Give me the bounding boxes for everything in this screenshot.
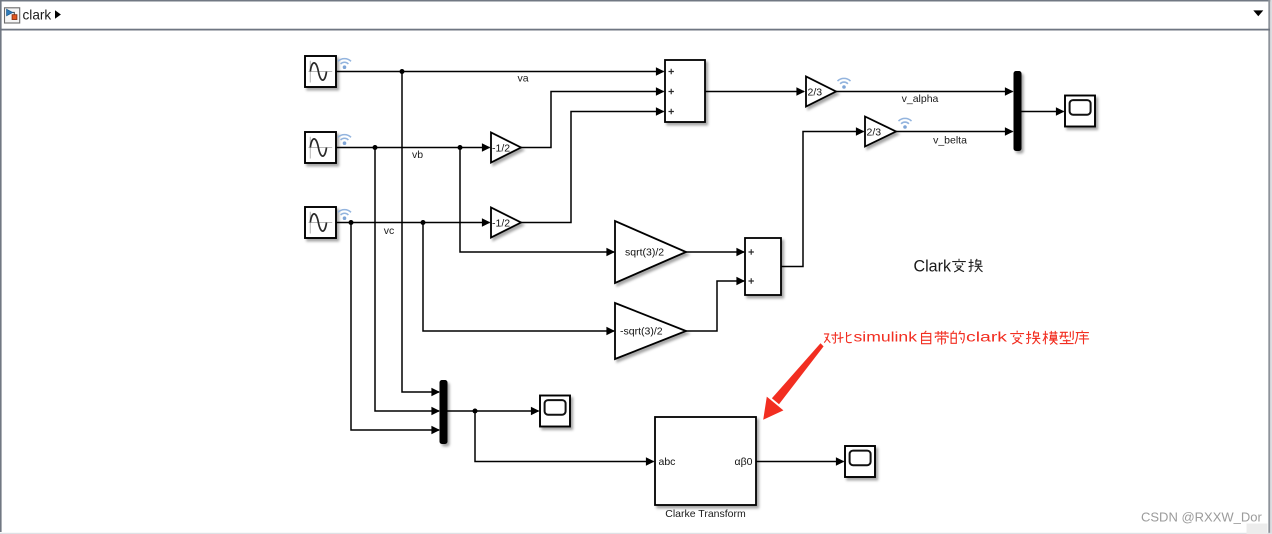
wire v_belta to mux (896, 131, 1013, 133)
sum block bottom (745, 238, 781, 295)
arrowhead into gain -1/2 a (482, 143, 491, 151)
svg-text:Clarke Transform: Clarke Transform (665, 508, 746, 520)
red callout arrow (763, 343, 823, 420)
red annotation text (824, 329, 1089, 345)
sine wave source vc (305, 207, 336, 238)
gain sqrt(3)/2 (615, 221, 686, 283)
wire sqrt gain to sum2 in1 (686, 251, 744, 253)
svg-text:simulink: simulink (854, 329, 919, 345)
svg-text:vc: vc (384, 225, 395, 237)
svg-text:v_belta: v_belta (933, 135, 967, 147)
node on va wire (400, 69, 405, 74)
arrowhead into mux in2 (431, 407, 440, 415)
gain -1/2 a (491, 133, 521, 163)
arrowhead into scope2 (1056, 107, 1065, 115)
wire mux2 to scope (1022, 111, 1064, 113)
sum block top (665, 60, 705, 122)
wire v_alpha to mux (836, 91, 1013, 93)
arrowhead into sum in3 (656, 107, 665, 115)
arrowhead into scope1 (531, 407, 540, 415)
wire sum2 to gain 2/3 b (781, 132, 864, 267)
wire vc to gain (337, 222, 490, 224)
arrowhead into gain sqrt(3)/2 (606, 248, 615, 256)
wire vc branch down to -sqrt gain (423, 223, 614, 332)
wire vb branch down to mux (375, 148, 439, 412)
node on vb wire 1 (373, 145, 378, 150)
arrowhead into scope3 (836, 457, 845, 465)
window right border (1268, 0, 1270, 534)
mux block top right (1014, 71, 1022, 151)
svg-text:v_alpha: v_alpha (902, 93, 939, 105)
scope top right (1065, 96, 1095, 127)
svg-text:Clark: Clark (914, 258, 952, 276)
arrowhead into sum2 in2 (736, 277, 745, 285)
wire sum to gain 2/3 a (705, 91, 804, 93)
wire -sqrt gain to sum2 in2 (686, 281, 744, 331)
wire vb branch down to sqrt gain (460, 148, 614, 253)
arrowhead into clarke abc (646, 457, 655, 465)
node on vc wire 2 (421, 220, 426, 225)
svg-text:va: va (517, 73, 528, 85)
svg-text:-1/2: -1/2 (492, 142, 510, 154)
arrowhead into sum in2 (656, 87, 665, 95)
sine wave source vb (305, 132, 336, 163)
arrowhead into gain 2/3 a (796, 87, 805, 95)
window bottom border (0, 533, 1272, 534)
wire mux1 branch to clarke block (475, 411, 654, 462)
wire vc branch down to mux (351, 223, 439, 431)
wire va branch down to mux (402, 72, 439, 393)
svg-text:clark: clark (966, 329, 1008, 345)
mux block bottom left (440, 380, 448, 444)
breadcrumb model icon (5, 8, 20, 23)
gain -1/2 b (491, 208, 521, 238)
wire gain -1/2 b to sum in3 (521, 112, 664, 223)
logging badge on sine vb (338, 135, 351, 145)
window left border (0, 0, 2, 532)
svg-text:vb: vb (412, 149, 423, 161)
gain 2/3 b (865, 117, 896, 147)
logging badge on sine va (338, 59, 351, 69)
wire va to sum (337, 71, 664, 73)
logging badge on sine vc (338, 210, 351, 220)
sine wave source va (305, 56, 336, 87)
svg-text:abc: abc (659, 456, 676, 468)
arrowhead into mux in1 (431, 388, 440, 396)
svg-text:2/3: 2/3 (808, 86, 823, 98)
arrowhead into sum in1 (656, 67, 665, 75)
csdn watermark box (1247, 524, 1268, 534)
svg-text:2/3: 2/3 (867, 126, 882, 138)
arrowhead into gain -1/2 b (482, 218, 491, 226)
logging badge on gain 2/3 b (899, 118, 912, 128)
scope bottom right (845, 446, 875, 477)
wire gain -1/2 a to sum in2 (521, 92, 664, 148)
arrowhead into mux in3 (431, 426, 440, 434)
arrowhead into sum2 in1 (736, 248, 745, 256)
node on vb wire 2 (458, 145, 463, 150)
svg-text:-sqrt(3)/2: -sqrt(3)/2 (620, 326, 663, 338)
svg-text:sqrt(3)/2: sqrt(3)/2 (625, 247, 664, 259)
wire clarke to scope3 (756, 461, 844, 463)
arrowhead into gain -sqrt(3)/2 (606, 327, 615, 335)
svg-text:CSDN @RXXW_Dor: CSDN @RXXW_Dor (1141, 510, 1262, 525)
breadcrumb arrow (55, 10, 61, 19)
arrowhead into mux2 in1 (1005, 87, 1014, 95)
gain 2/3 a (806, 77, 836, 107)
node on mux1 output (473, 409, 478, 414)
arrowhead into gain 2/3 b (856, 127, 865, 135)
arrowhead into mux2 in2 (1005, 127, 1014, 135)
window top border (0, 0, 1272, 2)
logging badge on gain 2/3 a (838, 78, 851, 88)
breadcrumb bar separator (0, 29, 1270, 31)
annotation Clark bianhuan (914, 258, 983, 276)
svg-text:αβ0: αβ0 (735, 456, 753, 468)
node on vc wire 1 (349, 220, 354, 225)
wire vb to gain (337, 147, 490, 149)
svg-text:clark: clark (23, 8, 52, 23)
dropdown arrow top right (1253, 10, 1263, 16)
svg-text:-1/2: -1/2 (492, 217, 510, 229)
gain -sqrt(3)/2 (615, 303, 686, 359)
wire mux1 to scope1 (448, 410, 539, 412)
clarke transform subsystem (655, 417, 756, 505)
scope bottom left (540, 396, 570, 427)
